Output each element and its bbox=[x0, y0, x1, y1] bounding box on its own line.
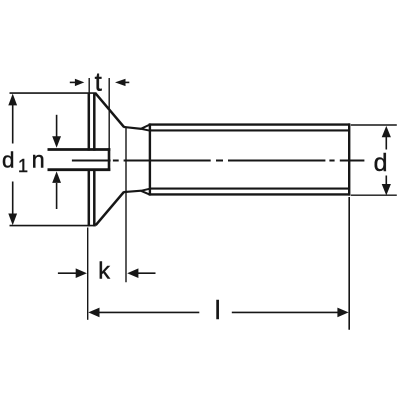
thread start vertical bbox=[149, 123, 151, 195]
thread root bottom line bbox=[150, 188, 349, 190]
thread chamfer top bbox=[141, 125, 150, 131]
l arrow right bbox=[337, 308, 348, 318]
l extension line right bbox=[348, 197, 350, 330]
d extension line top right bbox=[351, 124, 397, 126]
svg-text:l: l bbox=[215, 295, 221, 325]
d dimension line bbox=[385, 137, 387, 185]
l arrow left bbox=[88, 308, 99, 318]
d1 arrow bottom bbox=[8, 214, 17, 226]
shank major diameter bottom edge bbox=[149, 193, 350, 195]
n arrow upper bbox=[52, 115, 61, 148]
d arrow bottom bbox=[382, 184, 391, 195]
k arrow right bbox=[127, 268, 155, 278]
head face outer line bbox=[88, 93, 91, 227]
head face inner line bbox=[93, 93, 96, 227]
centerline bbox=[72, 160, 365, 162]
svg-text:k: k bbox=[98, 258, 110, 284]
l dimension line left segment bbox=[99, 311, 199, 313]
n arrow lower bbox=[52, 171, 61, 209]
cone top edge bbox=[96, 94, 124, 127]
t arrow left bbox=[70, 79, 85, 86]
slot bottom line bbox=[48, 168, 111, 171]
svg-text:t: t bbox=[95, 67, 103, 97]
svg-text:d: d bbox=[2, 148, 15, 173]
slot end vertical bbox=[108, 148, 111, 171]
k arrow left bbox=[58, 268, 87, 278]
d extension line bottom right bbox=[351, 194, 397, 196]
thread runout top bbox=[123, 127, 141, 129]
l dimension line right segment bbox=[232, 311, 338, 313]
shank end line bbox=[348, 123, 350, 195]
d1 dimension line bbox=[12, 105, 14, 214]
d1 arrow top bbox=[8, 94, 17, 106]
cone-shank junction line + k right extension line bbox=[125, 127, 127, 282]
t extension line right bbox=[108, 78, 110, 149]
thread chamfer bottom bbox=[141, 189, 150, 195]
cone bottom edge bbox=[96, 192, 124, 225]
head top edge + d1 top extension line bbox=[10, 92, 97, 94]
slot top line bbox=[48, 148, 111, 151]
svg-text:1: 1 bbox=[18, 156, 28, 176]
t arrow right bbox=[115, 79, 129, 86]
thread runout bottom bbox=[123, 191, 141, 192]
thread root top line bbox=[150, 129, 349, 131]
svg-text:d: d bbox=[374, 149, 388, 177]
d arrow top bbox=[382, 126, 391, 137]
k extension line left bbox=[87, 228, 89, 320]
svg-text:n: n bbox=[32, 147, 45, 173]
t extension line left bbox=[88, 78, 90, 93]
shank major diameter top edge bbox=[149, 123, 350, 125]
head bottom edge + d1 bottom extension line bbox=[10, 225, 96, 227]
